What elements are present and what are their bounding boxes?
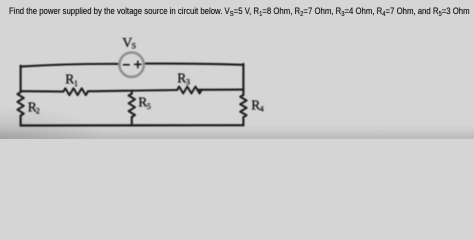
wire top-right segment (voltage source to node B) [144, 64, 243, 65]
wire middle segment right (R3 to node B) [199, 89, 244, 91]
svg-text:R: R [138, 95, 147, 110]
svg-text:2: 2 [36, 107, 40, 116]
resistor R3 (zigzag on middle wire) [177, 87, 202, 94]
problem statement text [9, 6, 474, 17]
voltage source VS (circle) [119, 52, 143, 76]
wire R5 stub bottom (R5 to bottom rail) [131, 117, 133, 126]
label R4 [251, 97, 264, 113]
wire middle segment center (R1 to R3) [88, 90, 177, 91]
wire R5 stub top (middle wire down to R5) [131, 91, 133, 94]
label R2 [28, 99, 40, 115]
label R5 [138, 95, 151, 111]
plus terminal of VS [135, 61, 141, 67]
resistor R4 (vertical zigzag, right branch) [240, 95, 246, 117]
svg-text:S: S [132, 41, 136, 50]
wire bottom rail [21, 124, 244, 127]
svg-text:4: 4 [260, 105, 264, 114]
svg-text:3: 3 [186, 78, 190, 87]
wire right vertical bottom (R4 to bottom rail) [242, 117, 244, 125]
wire top-left segment (node A to voltage source) [21, 64, 120, 67]
minus terminal of VS [123, 64, 129, 66]
svg-text:5: 5 [147, 102, 151, 111]
wire left vertical bottom (R2 to bottom rail) [20, 116, 22, 126]
svg-text:R: R [65, 72, 74, 87]
wire left vertical top (node A down to R2) [20, 66, 22, 93]
resistor R2 (vertical zigzag, left branch) [17, 92, 23, 115]
wire right vertical top (node B down to R4) [242, 64, 244, 95]
svg-text:R: R [177, 70, 186, 85]
label VS [122, 36, 136, 51]
svg-text:1: 1 [74, 79, 78, 88]
label R1 [65, 72, 78, 88]
wire middle segment left (node A to R1) [21, 90, 64, 93]
label R3 [177, 70, 190, 86]
resistor R1 (zigzag on middle wire) [63, 88, 87, 95]
resistor R5 (vertical zigzag, center branch) [129, 94, 135, 117]
